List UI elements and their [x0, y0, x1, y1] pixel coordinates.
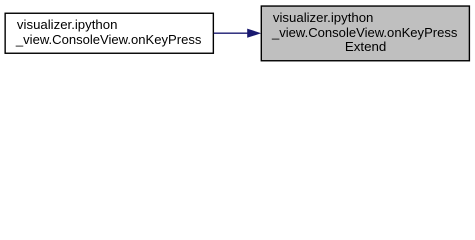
edge: arrow from caller to callee: [214, 29, 261, 38]
svg-text:visualizer.ipython: visualizer.ipython: [17, 17, 118, 32]
svg-text:_view.ConsoleView.onKeyPress: _view.ConsoleView.onKeyPress: [15, 32, 202, 47]
svg-text:_view.ConsoleView.onKeyPress: _view.ConsoleView.onKeyPress: [271, 25, 458, 40]
svg-text:Extend: Extend: [345, 39, 386, 54]
caller node box: visualizer.ipython_view.ConsoleView.onKeyPress: [5, 13, 213, 53]
callee node box (current): visualizer.ipython_view.ConsoleView.onKeyPressExtend: [261, 6, 469, 61]
svg-text:visualizer.ipython: visualizer.ipython: [273, 10, 374, 25]
